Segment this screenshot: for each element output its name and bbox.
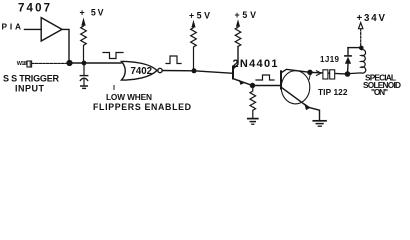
svg-text:TIP 122: TIP 122 bbox=[318, 87, 348, 97]
svg-text:W18: W18 bbox=[17, 61, 27, 67]
svg-text:"ON": "ON" bbox=[371, 87, 388, 97]
svg-text:S S TRIGGER: S S TRIGGER bbox=[3, 74, 60, 84]
svg-text:LOW WHEN: LOW WHEN bbox=[106, 92, 152, 102]
svg-text:7402: 7402 bbox=[131, 66, 153, 77]
svg-text:INPUT: INPUT bbox=[15, 84, 45, 94]
svg-text:+ 5V: + 5V bbox=[80, 8, 104, 18]
svg-text:PIA: PIA bbox=[2, 21, 22, 31]
svg-text:1J19: 1J19 bbox=[320, 55, 340, 64]
svg-text:2N4401: 2N4401 bbox=[233, 58, 278, 70]
svg-text:+5V: +5V bbox=[235, 10, 257, 20]
svg-text:FLIPPERS ENABLED: FLIPPERS ENABLED bbox=[93, 102, 191, 112]
svg-text:+5V: +5V bbox=[189, 11, 210, 21]
svg-text:+34V: +34V bbox=[357, 13, 386, 24]
